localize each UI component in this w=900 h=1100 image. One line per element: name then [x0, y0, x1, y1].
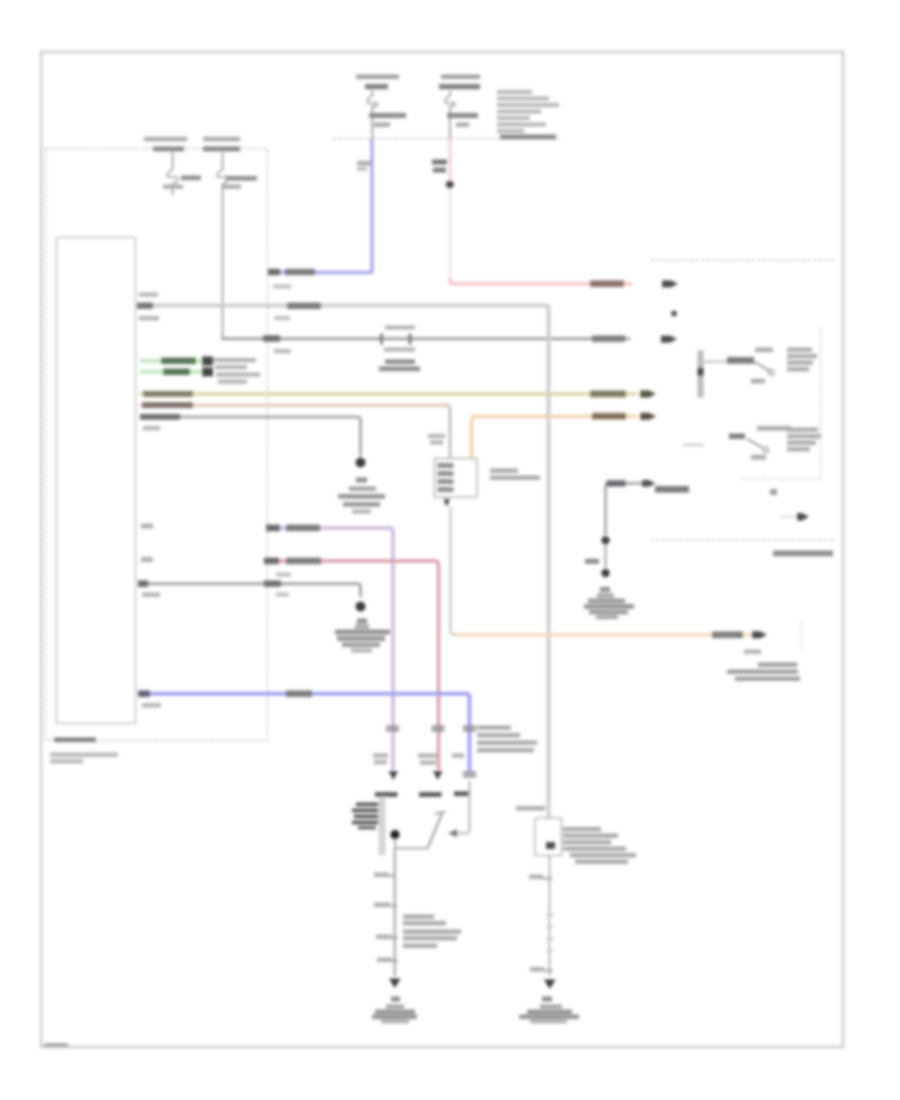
connector marks at JB edge on blk/wht [263, 335, 280, 342]
blk/wht end arrow [661, 336, 677, 343]
relay terminal bars [375, 792, 398, 797]
green wire 1 [140, 359, 203, 362]
orange end arrow [640, 413, 656, 420]
ground G5 dot [601, 569, 609, 577]
lighting switch blade [747, 439, 764, 449]
illumination text [490, 469, 518, 473]
relay contact [395, 839, 428, 848]
fuse F1 [172, 152, 174, 195]
wire red from fuse FB [449, 139, 452, 184]
fusible link label [432, 160, 447, 165]
RED wire code label [590, 280, 624, 287]
harness text block [403, 915, 434, 919]
headlight relay text block [477, 726, 511, 730]
small mark under dashes [770, 489, 777, 495]
lighting switch text block [787, 428, 818, 432]
inline connector on blk/wht (glove box light) [385, 326, 415, 330]
junction block dashed box [46, 149, 268, 741]
gray wire code at JB exit [287, 303, 321, 309]
dashed stub right of cream wire [801, 623, 803, 651]
ground G2 label [357, 619, 367, 624]
brown wire [140, 404, 446, 407]
blue wire long [140, 694, 470, 772]
lighting switch stub [684, 444, 705, 446]
fuse FA header [356, 75, 399, 79]
tail relay box [535, 818, 562, 856]
green wire 2 [140, 370, 203, 373]
red end arrow [662, 280, 678, 287]
tail relay label above [516, 806, 545, 811]
blue wire code + connector at JB [285, 269, 315, 275]
fuse FA [371, 91, 373, 139]
control unit pin labels (no wire) [141, 524, 153, 529]
wire below tail relay [549, 856, 551, 977]
ground G5 pyramid [597, 594, 614, 598]
blue feed into relay from right [456, 780, 470, 833]
fuse F1 label [144, 137, 187, 141]
ground G1 label [356, 478, 367, 483]
gray drop from brown wire to illumination connector [446, 405, 450, 459]
wire fuse2 to blk/wht run [223, 338, 631, 339]
connector exit arrow [444, 499, 451, 507]
ground G2 text pyramid [355, 625, 369, 629]
ground G5 label [600, 587, 610, 592]
headlight relay name text (dark) [356, 803, 380, 807]
ground G1 dot [356, 458, 366, 468]
BLK label [585, 559, 599, 564]
gray/blk wire to ground G1 [140, 417, 361, 452]
gray drop to cream wire [451, 507, 753, 635]
connector dot on red [446, 181, 454, 189]
connector dot on brn/blk [601, 536, 609, 544]
orange end arrow2 [752, 631, 767, 638]
C-label below blk/wht at JB exit [274, 316, 290, 320]
dashed line bottom (column switch bottom) [651, 539, 834, 541]
tan wire [140, 392, 636, 395]
dash-arrow under column switch [781, 516, 798, 518]
COLUMN SWITCH label [773, 551, 833, 557]
fuse FB header [441, 75, 480, 79]
fuse F2 label [203, 137, 240, 141]
dimmer switch common line [704, 361, 755, 363]
tan end arrow [640, 390, 656, 397]
orange wire (to illumination connector) [472, 416, 637, 459]
purple wire [266, 528, 393, 770]
wire blue from fuse FA [270, 139, 372, 273]
connector arrows into relay [389, 771, 399, 780]
tail relay text block [563, 827, 601, 831]
ticks and labels on bottom wire [384, 875, 396, 877]
wire below headlight relay [394, 849, 396, 977]
red wire 2 [264, 561, 439, 770]
blk/wht wire code label [592, 336, 625, 342]
connector ticks on purple/red/blue verticals [386, 726, 399, 728]
ground G3 label [391, 997, 400, 1002]
fuse F2 [222, 152, 224, 338]
gray wire start marks [137, 303, 153, 309]
long gray wire from control unit to tail relay [140, 306, 549, 819]
junction block name text [54, 738, 96, 743]
relay coil bar [379, 797, 386, 856]
brn/blk wire from dimmer [606, 483, 649, 535]
engine fuse box dashed line [333, 138, 560, 140]
illumination connector [435, 459, 478, 498]
ORN label [712, 632, 743, 639]
ground G3 arrow [389, 979, 401, 989]
ground G2 dot [356, 602, 366, 612]
relay common dot [390, 830, 399, 839]
lighting switch labels [757, 426, 791, 431]
fuse FB [449, 91, 451, 139]
dimmer labels [755, 348, 773, 353]
junction marks where black wire crosses JB edge [264, 580, 281, 586]
wire color labels above relay [373, 754, 388, 758]
ground G4 pyramid [540, 1005, 562, 1009]
ground G4 label [542, 997, 552, 1002]
cream wire recolor overlay [456, 633, 750, 636]
dimmer switch bar [698, 351, 704, 398]
black wire to ground G2 [140, 584, 361, 597]
dashed vertical column switch [820, 327, 822, 477]
multiplex text block [213, 358, 256, 362]
ground G4 arrow [544, 980, 556, 990]
ground G1 text pyramid [349, 487, 376, 491]
ground G3 pyramid [386, 1005, 404, 1009]
dimmer blade [755, 362, 770, 371]
C-label near drop [428, 434, 445, 438]
dashed line top right (column switch top) [651, 259, 835, 261]
footer page label [44, 1044, 68, 1049]
BLU label [357, 161, 371, 165]
trailer text block (right aligned) [758, 663, 797, 667]
control unit box [57, 238, 136, 724]
connector dot upper right [671, 311, 677, 317]
fuse box text block [497, 90, 532, 94]
dimmer text block [787, 348, 812, 352]
